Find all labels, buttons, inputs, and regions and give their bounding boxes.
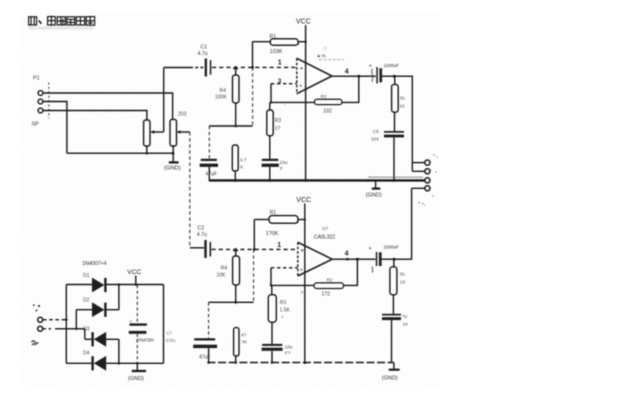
capacitor C9 filter (129, 285, 176, 363)
connector J1 input terminals (32, 76, 49, 128)
supply top rail (66, 283, 163, 286)
op-amp U1 (284, 46, 344, 107)
capacitor C6 (371, 129, 404, 180)
diode D4 (83, 351, 106, 371)
supply bottom rail (66, 362, 163, 365)
power VCC supply (127, 269, 141, 285)
power VCCb (296, 197, 311, 363)
capacitor C1 (198, 45, 212, 77)
ground GND2 (366, 181, 382, 198)
capacitor C5b (369, 245, 399, 273)
wire to terminal 1 (394, 76, 412, 162)
wire input mid to ground rail (43, 102, 67, 154)
wire feedback right b (344, 259, 358, 285)
ground rail b (207, 361, 394, 364)
ground GND3 (382, 363, 400, 382)
power VCC (296, 19, 311, 181)
resistor R2b (314, 277, 344, 297)
title 四、电路原理图 (29, 16, 95, 30)
diode D1 (83, 273, 107, 292)
wire feedback b (270, 284, 314, 286)
resistor R3 (267, 102, 282, 135)
wire output b (332, 258, 375, 261)
capacitor C3 (262, 136, 288, 181)
wire node link (209, 125, 252, 128)
wire terminal4 to lower channel output (394, 188, 412, 259)
ground bus heavy (209, 177, 425, 182)
wiper VR2 to lower channel (177, 130, 204, 248)
resistor R4 (215, 67, 239, 126)
wire feedback right (342, 76, 359, 102)
resistor R1 (253, 34, 307, 68)
resistor R5 (232, 145, 247, 180)
resistor R3b (268, 285, 290, 322)
supply right rail (163, 285, 165, 364)
capacitor C6b (382, 314, 408, 363)
wire feedback (270, 101, 315, 103)
ground GND1 (164, 153, 181, 171)
capacitor C2b (193, 302, 217, 362)
wire input bottom to VR1 (43, 111, 147, 121)
resistor R6b (390, 259, 406, 314)
capacitor C5 (369, 63, 399, 84)
input ground rail (67, 152, 175, 155)
node output junction b (393, 258, 396, 261)
AC terminals (32, 304, 85, 345)
ground GND4 (128, 363, 146, 382)
capacitor C2 (200, 126, 218, 180)
resistor R5b (234, 328, 248, 363)
wiper VR1 to C1 (150, 68, 164, 134)
node pin1 wire (212, 66, 297, 69)
wire input top to VR2 (43, 93, 173, 119)
diode D3 (83, 327, 119, 364)
capacitor C3b (262, 322, 293, 362)
output terminals CON2 (412, 160, 430, 191)
node output junction (393, 75, 396, 78)
wire dashed R1b to link b (253, 249, 255, 302)
wire output (332, 75, 376, 78)
resistor R6 (392, 76, 406, 131)
diode D2 (76, 285, 119, 329)
wire node link b (209, 301, 254, 304)
wire inverting input b (271, 268, 298, 286)
op-amp U2 (298, 226, 335, 295)
capacitor C1b (197, 226, 211, 259)
supply left rail (65, 285, 67, 364)
resistor R4b (217, 249, 240, 302)
wire inverting input (271, 84, 297, 103)
node pin1b wire (212, 248, 298, 251)
wire VR1 wiper to C1 (164, 67, 204, 69)
resistor R2 (315, 94, 343, 115)
potentiometer VR1 (144, 120, 150, 153)
wire dashed R1 to link (252, 67, 254, 126)
potentiometer VR2 (170, 112, 187, 154)
resistor R1b (254, 210, 306, 249)
